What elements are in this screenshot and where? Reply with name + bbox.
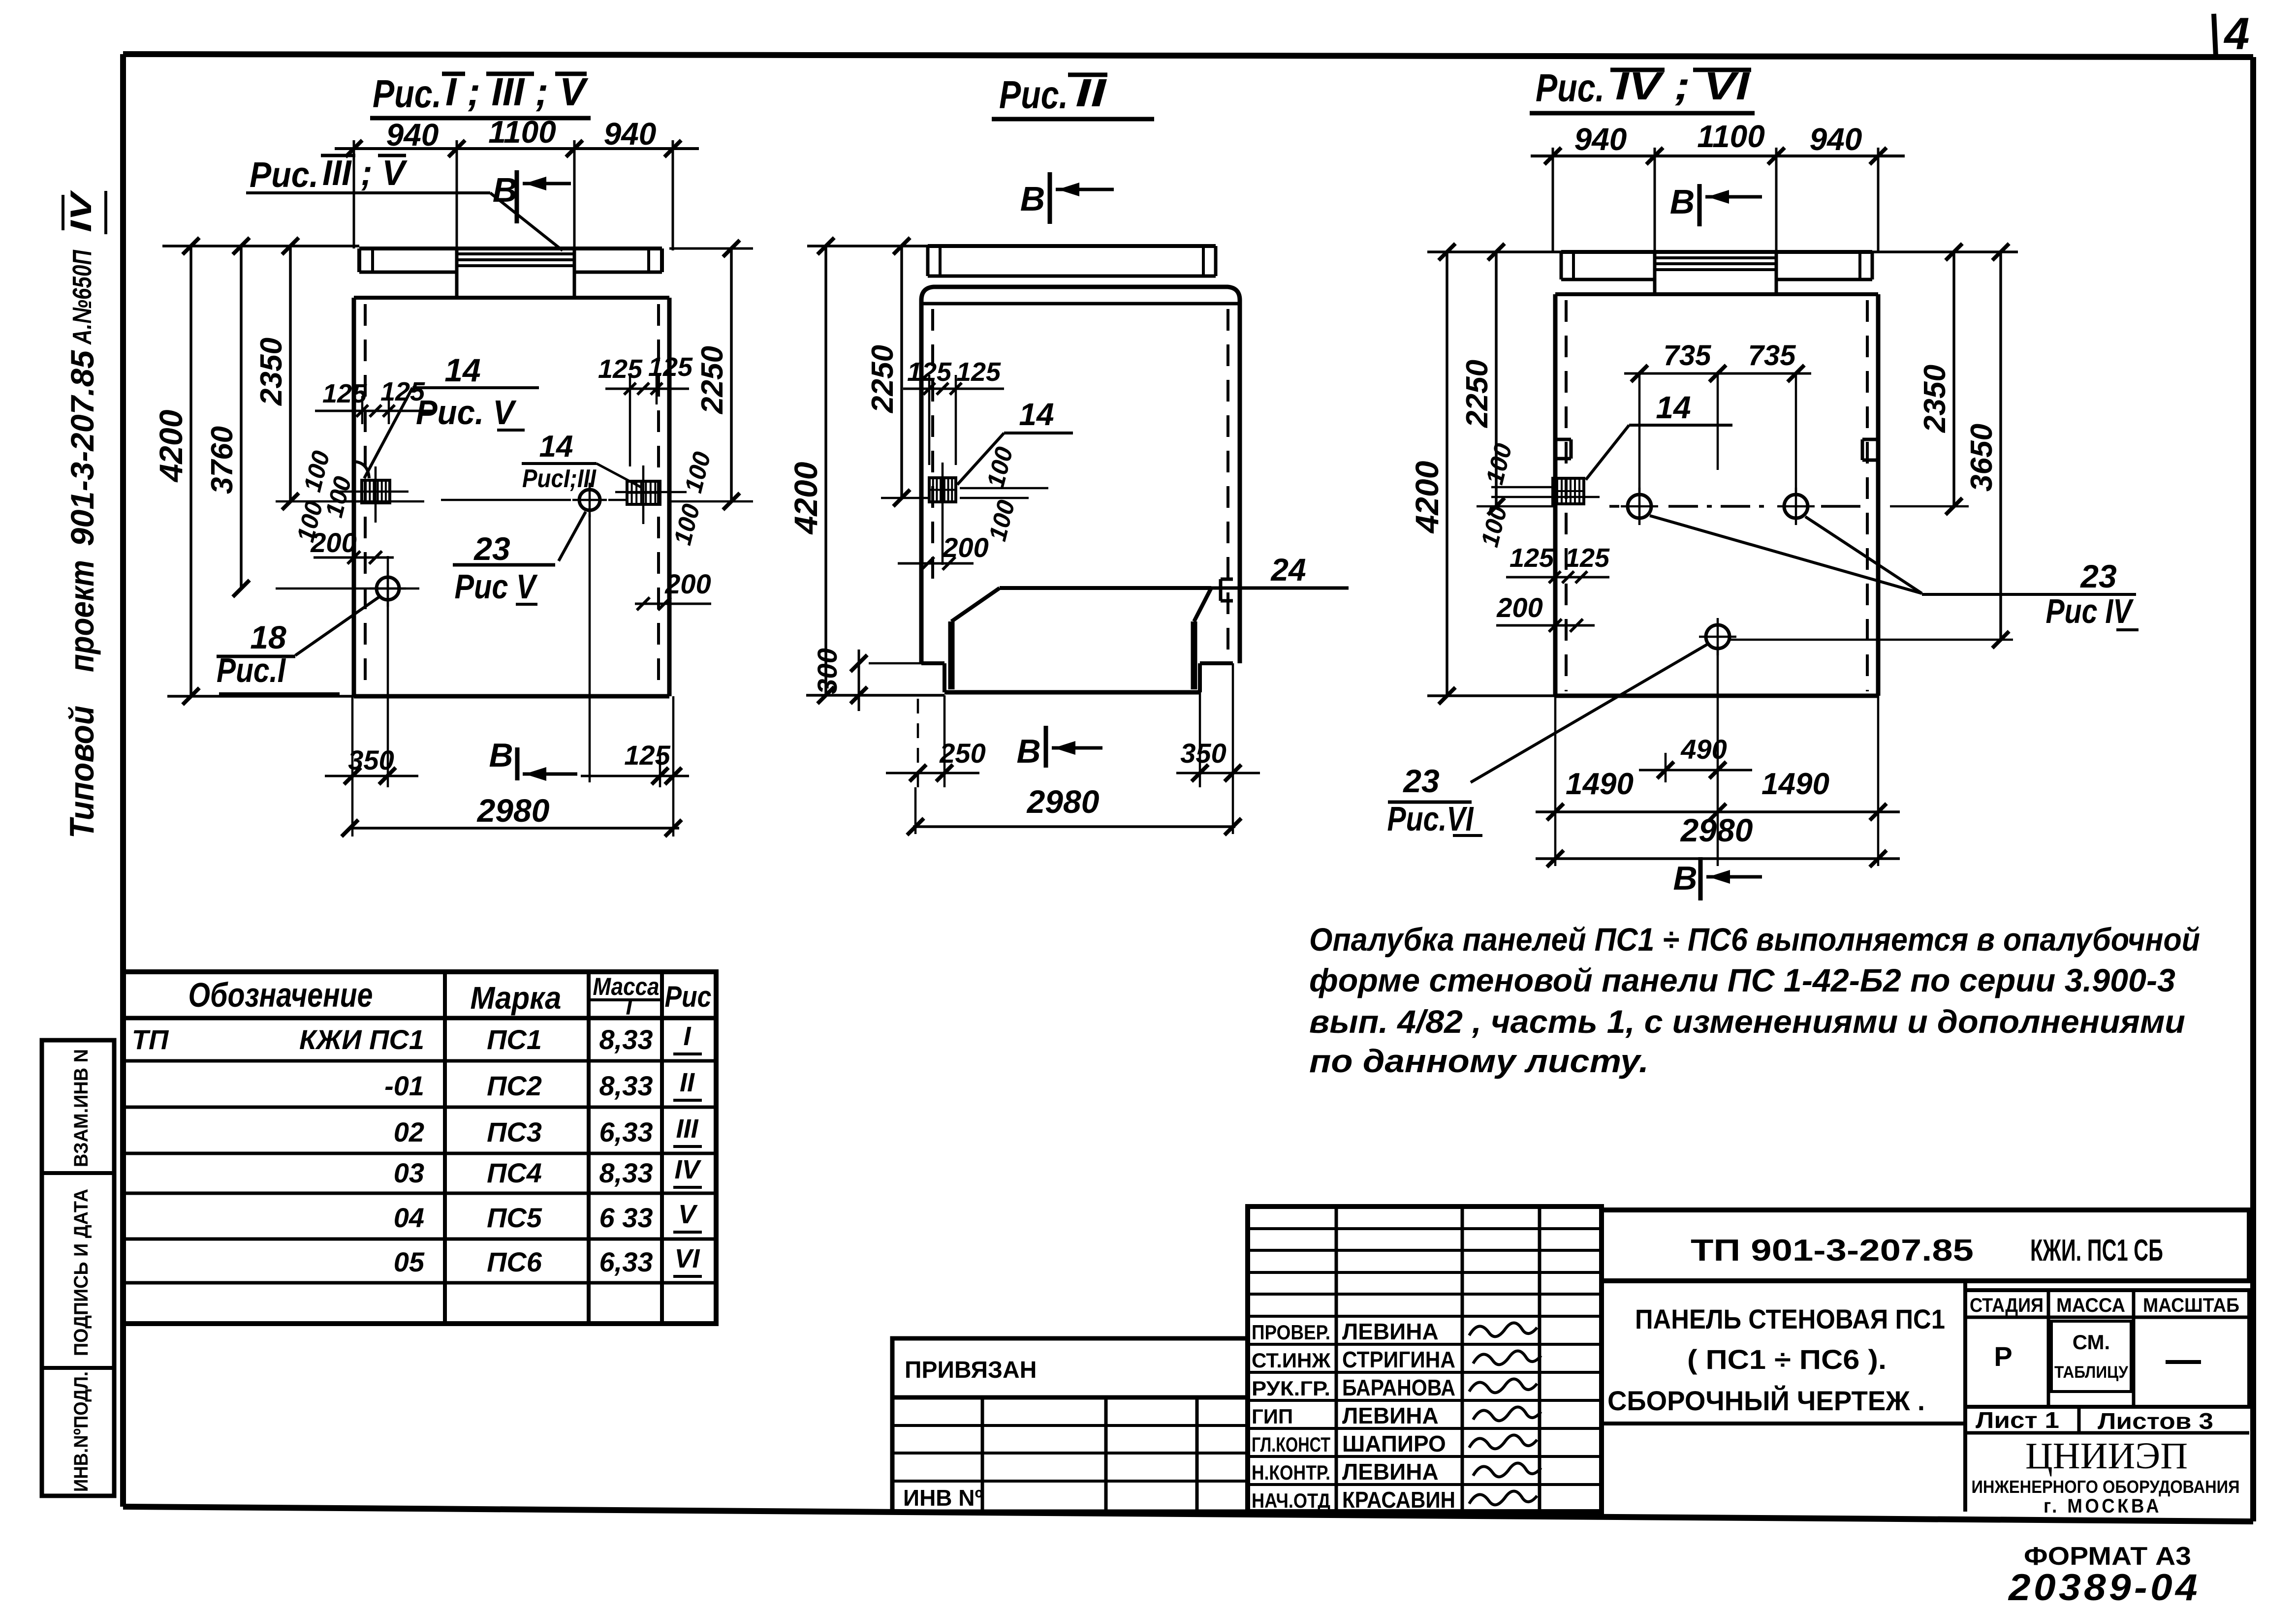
svg-text:проект: проект xyxy=(63,560,101,672)
fig3 bottom dims 490 / 1490 1490 / 2980 xyxy=(1554,696,1557,866)
svg-text:II: II xyxy=(680,1068,695,1097)
svg-text:940: 940 xyxy=(604,116,657,152)
fig2 left dim verticals 4200 / 2250 xyxy=(824,246,827,695)
svg-text:2350: 2350 xyxy=(254,338,288,406)
fig1 embedded part 14 right (hatched) xyxy=(627,481,660,504)
svg-text:125: 125 xyxy=(624,740,670,771)
svg-text:3650: 3650 xyxy=(1965,424,1999,492)
svg-text:ПС2: ПС2 xyxy=(487,1070,542,1101)
svg-text:форме стеновой панели ПС 1-42-: форме стеновой панели ПС 1-42-Б2 по сери… xyxy=(1309,962,2175,998)
title block: document number box xyxy=(1602,1210,2249,1281)
svg-text:ИНЖЕНЕРНОГО ОБОРУДОВАНИЯ: ИНЖЕНЕРНОГО ОБОРУДОВАНИЯ xyxy=(1972,1477,2240,1497)
svg-text:125: 125 xyxy=(1510,543,1554,573)
fig2 doorway opening outline xyxy=(1000,586,1211,590)
svg-text:125: 125 xyxy=(1565,543,1610,573)
fig2 right edge notch xyxy=(1221,578,1233,581)
svg-text:ГИП: ГИП xyxy=(1252,1405,1293,1428)
svg-text:B: B xyxy=(1016,733,1040,770)
fig3 leader to 23 / Рис IV xyxy=(1650,516,1922,593)
svg-text:МАСШТАБ: МАСШТАБ xyxy=(2143,1295,2239,1316)
fig1 embedded part 14 left (hatched) xyxy=(362,480,390,503)
svg-text:125: 125 xyxy=(956,357,1001,387)
svg-text:ИНВ.NºПОДЛ.: ИНВ.NºПОДЛ. xyxy=(70,1371,92,1492)
svg-text:8,33: 8,33 xyxy=(599,1024,653,1055)
svg-text:B: B xyxy=(489,737,513,774)
fig2 bottom dim 2980 xyxy=(914,787,917,834)
svg-text:Рис.VI: Рис.VI xyxy=(1387,800,1474,838)
svg-text:VI: VI xyxy=(674,1244,700,1273)
svg-text:ПС6: ПС6 xyxy=(487,1246,542,1277)
svg-text:ПОДПИСЬ И ДАТА: ПОДПИСЬ И ДАТА xyxy=(70,1189,92,1356)
svg-text:Рис.: Рис. xyxy=(1536,66,1604,110)
fig2 panel body outline xyxy=(921,287,1240,663)
svg-text:Р: Р xyxy=(1994,1341,2012,1372)
svg-text:125: 125 xyxy=(322,379,367,408)
svg-text:1100: 1100 xyxy=(1697,119,1765,154)
fig3 leader to 23 / Рис. VI xyxy=(1471,645,1707,782)
svg-text:ПАНЕЛЬ СТЕНОВАЯ ПС1: ПАНЕЛЬ СТЕНОВАЯ ПС1 xyxy=(1635,1303,1945,1334)
svg-text:IV: IV xyxy=(674,1155,701,1184)
svg-text:125: 125 xyxy=(598,354,643,384)
svg-text:2980: 2980 xyxy=(1680,812,1753,848)
svg-text:14: 14 xyxy=(444,352,480,388)
fig3 left dim verticals 4200 / 2250 xyxy=(1446,252,1448,696)
svg-text:940: 940 xyxy=(1574,122,1627,157)
title block: privyazan box xyxy=(892,1338,1248,1397)
svg-text:НАЧ.ОТД: НАЧ.ОТД xyxy=(1252,1489,1330,1512)
svg-text:490: 490 xyxy=(1680,734,1727,765)
svg-text:735: 735 xyxy=(1748,340,1796,372)
svg-text:ПС4: ПС4 xyxy=(487,1157,542,1188)
svg-text:КРАСАВИН: КРАСАВИН xyxy=(1342,1487,1455,1513)
svg-text:Типовой: Типовой xyxy=(63,706,101,838)
svg-text:I: I xyxy=(683,1022,691,1051)
svg-text:Рис V: Рис V xyxy=(455,567,538,606)
svg-text:940: 940 xyxy=(386,117,439,153)
svg-text:350: 350 xyxy=(1180,738,1226,769)
svg-text:Рис IV: Рис IV xyxy=(2046,592,2134,630)
svg-text:Рис.I: Рис.I xyxy=(217,651,286,689)
svg-text:03: 03 xyxy=(394,1157,424,1188)
svg-text:300: 300 xyxy=(812,648,843,694)
fig3 top dimension line 940/1100/940 xyxy=(1531,155,1905,157)
svg-text:18: 18 xyxy=(250,619,286,655)
svg-text:СМ.: СМ. xyxy=(2073,1331,2110,1354)
svg-text:ПС1: ПС1 xyxy=(487,1024,542,1055)
svg-text:ИНВ Nº: ИНВ Nº xyxy=(903,1485,983,1511)
svg-text:2980: 2980 xyxy=(476,792,550,829)
svg-text:ПС3: ПС3 xyxy=(487,1116,542,1147)
svg-text:1490: 1490 xyxy=(1761,767,1829,801)
svg-text:125: 125 xyxy=(380,377,425,406)
svg-text:Опалубка панелей ПС1 ÷ ПС6 вып: Опалубка панелей ПС1 ÷ ПС6 выполняется в… xyxy=(1309,921,2200,958)
fig2 dim 300 xyxy=(869,662,921,665)
svg-text:6 33: 6 33 xyxy=(599,1202,653,1233)
svg-text:ЛЕВИНА: ЛЕВИНА xyxy=(1342,1319,1439,1344)
fig3 inner dashed edge lines xyxy=(1565,300,1568,691)
svg-text:8,33: 8,33 xyxy=(599,1070,653,1101)
svg-text:II: II xyxy=(1075,71,1107,115)
fig2 embedded part 14 (hatched) xyxy=(929,478,956,502)
fig3 panel body outline xyxy=(1555,292,1878,296)
svg-text:200: 200 xyxy=(1496,592,1542,623)
svg-text:ТАБЛИЦУ: ТАБЛИЦУ xyxy=(2054,1363,2129,1382)
svg-text:I ; III ; V: I ; III ; V xyxy=(445,70,589,114)
svg-text:2250: 2250 xyxy=(695,346,729,414)
fig3 lower anchor circle 23 xyxy=(1706,625,1730,649)
fig3 anchor circles 23 (pair) xyxy=(1628,495,1651,518)
parts table frame xyxy=(123,972,716,1324)
svg-text:III ; V: III ; V xyxy=(322,154,408,193)
svg-text:А.№650П: А.№650П xyxy=(67,249,97,345)
svg-text:Рис. V: Рис. V xyxy=(416,393,517,432)
svg-text:940: 940 xyxy=(1810,122,1862,157)
svg-text:ПС5: ПС5 xyxy=(487,1202,542,1233)
svg-text:Лист 1: Лист 1 xyxy=(1976,1407,2059,1433)
svg-text:23: 23 xyxy=(2079,558,2116,594)
svg-text:125: 125 xyxy=(648,352,693,382)
svg-text:ТП 901-3-207.85: ТП 901-3-207.85 xyxy=(1691,1234,1974,1268)
fig1 panel body outline xyxy=(354,296,669,300)
svg-text:ПРИВЯЗАН: ПРИВЯЗАН xyxy=(905,1357,1037,1383)
svg-text:Обозначение: Обозначение xyxy=(189,976,373,1014)
svg-text:4: 4 xyxy=(2223,9,2249,59)
svg-text:СТАДИЯ: СТАДИЯ xyxy=(1970,1295,2044,1316)
svg-text:вып. 4/82 , часть 1, с изменен: вып. 4/82 , часть 1, с изменениями и доп… xyxy=(1309,1003,2185,1040)
fig1 bottom dim 350 xyxy=(351,696,354,836)
svg-text:901-3-207.85: 901-3-207.85 xyxy=(64,350,100,546)
svg-text:Т: Т xyxy=(622,994,638,1020)
fig1 panel cap outline xyxy=(359,247,662,250)
fig1 right dim vertical 2250 xyxy=(730,248,733,501)
page number tick xyxy=(2214,14,2216,56)
svg-text:2350: 2350 xyxy=(1918,365,1952,433)
fig1 label 23 / Рис V leader xyxy=(559,512,586,561)
svg-text:Н.КОНТР.: Н.КОНТР. xyxy=(1252,1461,1330,1484)
svg-text:2250: 2250 xyxy=(866,345,900,413)
svg-text:B: B xyxy=(1673,860,1697,897)
svg-text:3760: 3760 xyxy=(205,426,239,494)
fig1 bolt hole circle 23 xyxy=(579,490,600,510)
svg-text:02: 02 xyxy=(394,1116,424,1147)
signatures (squiggles) xyxy=(1469,1323,1537,1336)
svg-text:ШАПИРО: ШАПИРО xyxy=(1342,1431,1446,1456)
svg-text:200: 200 xyxy=(664,568,711,599)
fig2 panel cap xyxy=(928,244,1216,248)
svg-text:БАРАНОВА: БАРАНОВА xyxy=(1342,1375,1455,1400)
svg-text:СБОРОЧНЫЙ ЧЕРТЕЖ .: СБОРОЧНЫЙ ЧЕРТЕЖ . xyxy=(1607,1385,1925,1416)
svg-text:Рис.: Рис. xyxy=(373,72,441,116)
svg-text:14: 14 xyxy=(1019,397,1054,432)
fig2 bottom dim 250 xyxy=(917,699,919,787)
title block: stadia/massa/masshtab xyxy=(1965,1290,2249,1407)
svg-text:МАССА: МАССА xyxy=(2056,1295,2125,1316)
svg-text:B: B xyxy=(1670,183,1695,221)
svg-text:1490: 1490 xyxy=(1566,767,1634,801)
svg-text:ВЗАМ.ИНВ N: ВЗАМ.ИНВ N xyxy=(70,1049,92,1167)
svg-text:ЦНИИЭП: ЦНИИЭП xyxy=(2025,1435,2188,1477)
fig1 inner dashed edge lines xyxy=(364,304,367,691)
svg-text:23: 23 xyxy=(1402,763,1439,799)
svg-text:Рис.: Рис. xyxy=(999,73,1068,117)
svg-text:20389-04: 20389-04 xyxy=(2008,1567,2201,1609)
svg-text:Листов 3: Листов 3 xyxy=(2098,1408,2213,1434)
svg-text:1100: 1100 xyxy=(488,114,556,150)
fig2 bottom legs and steps xyxy=(921,661,944,665)
fig2 bottom dim 350 xyxy=(1199,692,1201,787)
svg-text:РУК.ГР.: РУК.ГР. xyxy=(1252,1377,1330,1400)
fig1 edge step arc xyxy=(354,462,369,478)
svg-text:05: 05 xyxy=(394,1246,425,1277)
svg-text:ЛЕВИНА: ЛЕВИНА xyxy=(1342,1459,1439,1485)
svg-text:8,33: 8,33 xyxy=(599,1157,653,1188)
svg-text:III: III xyxy=(676,1114,698,1144)
svg-text:6,33: 6,33 xyxy=(599,1246,653,1277)
svg-text:4200: 4200 xyxy=(153,409,189,483)
svg-text:IV: IV xyxy=(64,189,97,232)
svg-text:Рис.: Рис. xyxy=(250,155,318,195)
svg-text:КЖИ ПС1: КЖИ ПС1 xyxy=(299,1024,424,1055)
fig2 inner dashed edge lines xyxy=(931,309,934,586)
svg-text:СТ.ИНЖ: СТ.ИНЖ xyxy=(1252,1349,1331,1372)
svg-text:СТРИГИНА: СТРИГИНА xyxy=(1342,1347,1455,1372)
svg-text:24: 24 xyxy=(1270,552,1306,588)
svg-text:14: 14 xyxy=(1656,390,1691,425)
svg-text:6,33: 6,33 xyxy=(599,1116,653,1147)
fig1 label 18 / Рис. I leader xyxy=(295,596,380,655)
fig1 bolt hole circle 18 xyxy=(377,577,399,600)
side strip box xyxy=(42,1040,114,1496)
fig3 panel cap xyxy=(1561,250,1872,254)
svg-text:200: 200 xyxy=(942,532,988,563)
svg-text:23: 23 xyxy=(473,530,510,567)
fig1 cap middle lifting recess hatch xyxy=(455,248,459,298)
fig3 edge notches xyxy=(1555,438,1571,441)
svg-text:г. МОСКВА: г. МОСКВА xyxy=(2044,1495,2162,1517)
svg-text:( ПС1 ÷ ПС6 ).: ( ПС1 ÷ ПС6 ). xyxy=(1687,1344,1887,1375)
svg-text:КЖИ. ПС1 СБ: КЖИ. ПС1 СБ xyxy=(2030,1234,2163,1268)
svg-text:4200: 4200 xyxy=(787,462,824,535)
fig2 lintel item 24 leader xyxy=(1211,587,1349,590)
svg-text:4200: 4200 xyxy=(1409,461,1445,534)
svg-text:2980: 2980 xyxy=(1026,783,1100,820)
fig3 embedded part 14 (hatched) xyxy=(1553,478,1584,504)
svg-text:ПРОВЕР.: ПРОВЕР. xyxy=(1252,1321,1330,1344)
sheet border frame xyxy=(123,54,2253,57)
svg-text:735: 735 xyxy=(1664,340,1712,372)
fig1 left dim verticals 4200/3760/2350 xyxy=(189,246,192,696)
svg-text:Марка: Марка xyxy=(471,980,562,1016)
svg-text:ЛЕВИНА: ЛЕВИНА xyxy=(1342,1403,1439,1428)
svg-text:ТП: ТП xyxy=(132,1024,169,1055)
svg-text:ГЛ.КОНСТ: ГЛ.КОНСТ xyxy=(1252,1433,1330,1456)
svg-text:-01: -01 xyxy=(384,1070,424,1101)
svg-text:V: V xyxy=(678,1200,698,1229)
fig1 top dimension line 940/1100/940 xyxy=(335,147,699,150)
fig3 right dim verticals 2350 / 3650 xyxy=(1952,252,1955,506)
svg-text:04: 04 xyxy=(394,1202,424,1233)
title block: lower aux table xyxy=(892,1397,1248,1512)
svg-text:2250: 2250 xyxy=(1460,360,1494,428)
svg-text:250: 250 xyxy=(939,738,985,769)
svg-text:B: B xyxy=(1020,180,1045,218)
svg-text:по данному листу.: по данному листу. xyxy=(1309,1043,1649,1079)
svg-text:14: 14 xyxy=(539,430,573,464)
title block: signature table xyxy=(1248,1207,1602,1512)
title block: list row xyxy=(1965,1405,2249,1409)
svg-text:Рис: Рис xyxy=(665,980,712,1013)
